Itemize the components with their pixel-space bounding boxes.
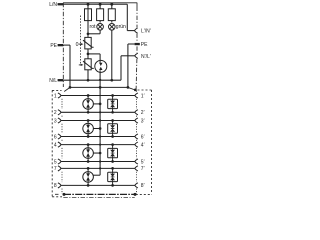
svg-text:1: 1 xyxy=(54,93,57,99)
junction lamp-N/L xyxy=(110,79,113,82)
wire PE bond right diagonal xyxy=(128,87,135,90)
junction spine crossing xyxy=(99,119,101,121)
terminal N/L left xyxy=(58,79,63,81)
junction screen bond bottom right xyxy=(134,193,137,196)
wire PE rail xyxy=(70,86,128,88)
border bottom dash-dot xyxy=(63,197,134,199)
suppressor diode box pair 3-6 xyxy=(108,121,118,137)
wire line 8 xyxy=(61,184,135,186)
cable box left bottom xyxy=(52,196,62,198)
svg-text:2′: 2′ xyxy=(141,110,145,116)
wire line 3 xyxy=(61,120,135,122)
junction diode bottom line 5 xyxy=(111,160,114,163)
wire N/L bus xyxy=(63,79,121,81)
svg-text:8: 8 xyxy=(54,183,57,189)
terminal 2 left xyxy=(58,110,61,115)
terminal L/N xyxy=(58,3,63,5)
junction tap-spine pair 1-2 xyxy=(99,103,102,106)
wire PE spine xyxy=(99,87,101,175)
junction PE rail spine xyxy=(99,86,102,89)
wire GDT tap pair 7-8 xyxy=(93,174,100,176)
varistor RV2 xyxy=(83,59,94,70)
wire RV1 to node B xyxy=(87,49,89,54)
svg-text:5′: 5′ xyxy=(141,159,145,165)
svg-text:N/L: N/L xyxy=(49,78,57,84)
junction GDT-N/L crossing xyxy=(99,79,101,81)
border left dash-dot xyxy=(62,3,64,87)
svg-text:6: 6 xyxy=(54,134,57,140)
cable dotted link left xyxy=(61,140,63,142)
cable dotted link right xyxy=(136,172,138,182)
wire PE down xyxy=(69,45,71,87)
junction GDT bottom line 5 xyxy=(87,160,90,163)
border right dash-dot mid1 xyxy=(136,34,138,42)
svg-text:3: 3 xyxy=(54,118,57,124)
suppressor diode box pair 1-2 xyxy=(108,96,118,113)
terminal PE left xyxy=(58,44,63,46)
wire down to GDT F2 xyxy=(99,54,101,61)
junction PE rail right xyxy=(127,86,130,89)
junction spine crossing xyxy=(99,135,101,137)
terminal 2' right xyxy=(135,110,138,115)
wire line 7 xyxy=(61,167,135,169)
junction diode bottom line 8 xyxy=(111,184,114,187)
svg-text:N'/L': N'/L' xyxy=(141,54,151,60)
wire to L-N outlet xyxy=(127,30,134,32)
wire fuse to node A xyxy=(87,21,89,34)
wire GDT tap pair 4-5 xyxy=(93,152,100,154)
varistor RV1 xyxy=(83,37,94,49)
resistor R3 xyxy=(108,9,115,21)
junction GDT bottom line 8 xyxy=(87,184,90,187)
terminal 3' right xyxy=(135,118,138,123)
cable dotted link left xyxy=(61,99,63,109)
terminal 6' right xyxy=(135,134,138,139)
cable dotted link right xyxy=(136,140,138,142)
junction tap-spine pair 3-6 xyxy=(99,127,102,130)
terminal 1' right xyxy=(135,93,138,98)
junction diode top line 3 xyxy=(111,119,114,122)
resistor R2 xyxy=(97,9,104,21)
svg-text:2: 2 xyxy=(54,110,57,116)
junction diode top line 4 xyxy=(111,143,114,146)
terminal 5' right xyxy=(135,159,138,164)
cable box left vertical xyxy=(51,90,53,196)
junction screen bond bottom left xyxy=(63,193,66,196)
wire PE left xyxy=(63,44,70,46)
terminal 7 left xyxy=(58,166,61,171)
svg-text:5: 5 xyxy=(54,159,57,165)
terminal 4' right xyxy=(135,142,138,147)
wire line 2 xyxy=(61,111,135,113)
lamp H2 gruen xyxy=(109,24,116,31)
cable dotted link right xyxy=(136,124,138,133)
suppressor diode box pair 7-8 xyxy=(108,168,118,185)
junction spine crossing xyxy=(99,160,101,162)
gas discharge tube pair 3-6 xyxy=(83,121,94,137)
wire bus to resistor R2 xyxy=(99,4,101,9)
wire line 6 xyxy=(61,136,135,138)
cable dotted link left xyxy=(61,116,63,118)
terminal 5 left xyxy=(58,159,61,164)
svg-text:6′: 6′ xyxy=(141,134,145,140)
lamp H1 rot xyxy=(97,24,104,31)
terminal L-N outlet xyxy=(135,28,138,33)
junction bus-colA xyxy=(87,3,90,6)
disconnect arrow 2 xyxy=(79,64,84,66)
junction tap-spine pair 4-5 xyxy=(99,152,102,155)
svg-text:4′: 4′ xyxy=(141,142,145,148)
wire GDT tap pair 3-6 xyxy=(93,128,100,130)
cable dotted link right xyxy=(136,148,138,158)
junction GDT top line 1 xyxy=(87,94,90,97)
cable dotted link right xyxy=(136,99,138,109)
wire node A to varistor RV1 xyxy=(87,34,89,38)
cable dotted link left xyxy=(61,148,63,158)
cable box left top xyxy=(52,89,61,91)
junction spine crossing xyxy=(99,144,101,146)
terminal PE right xyxy=(135,43,140,45)
wire lamp rot to node A xyxy=(88,33,100,35)
border top dash-dot xyxy=(63,2,137,4)
junction diode top line 7 xyxy=(111,167,114,170)
svg-text:3′: 3′ xyxy=(141,118,145,124)
screen bond dashes right xyxy=(136,193,152,195)
cable dotted link right xyxy=(136,116,138,118)
svg-text:7: 7 xyxy=(54,166,57,172)
junction spine crossing xyxy=(99,167,101,169)
terminal 6 left xyxy=(58,134,61,139)
wire L/N bus xyxy=(58,3,128,5)
wire node B to varistor RV2 xyxy=(87,54,89,59)
node A junction xyxy=(87,32,90,35)
wire PE rail up right xyxy=(127,44,129,87)
junction GDT top line 3 xyxy=(87,119,90,122)
disconnect linkage dashed xyxy=(80,16,82,65)
junction screen bond right xyxy=(134,89,137,92)
wire line 5 xyxy=(61,161,135,163)
svg-text:8′: 8′ xyxy=(141,183,145,189)
disconnect arrow 1 xyxy=(79,43,84,45)
junction diode top line 1 xyxy=(111,94,114,97)
wire to PE outlet xyxy=(128,43,135,45)
wire N/L up to outlet xyxy=(120,56,122,80)
terminal 4 left xyxy=(58,142,61,147)
wire bus to fuse xyxy=(87,4,89,9)
cable dotted link right top xyxy=(136,91,138,93)
border right dash-dot lower xyxy=(135,59,138,89)
junction PE rail left xyxy=(69,86,72,89)
border right dash-dot upper xyxy=(136,3,138,28)
svg-text:4: 4 xyxy=(54,142,57,148)
svg-text:0: 0 xyxy=(76,42,79,48)
junction GDT top line 4 xyxy=(87,143,90,146)
junction bus-colC xyxy=(110,3,113,6)
gas discharge tube F2 xyxy=(95,60,107,72)
wire GDT F2 to PE rail xyxy=(99,72,101,87)
cable box right top xyxy=(138,89,152,91)
wire R2 to lamp rot xyxy=(99,21,101,23)
wire bus to resistor R3 xyxy=(111,4,113,9)
wire PE bond left diagonal xyxy=(64,87,70,91)
terminal 7' right xyxy=(135,166,138,171)
svg-text:PE: PE xyxy=(141,42,148,48)
junction RV2-N/L xyxy=(87,79,90,82)
terminal N-L outlet xyxy=(135,53,138,58)
gas discharge tube pair 4-5 xyxy=(83,145,94,162)
svg-text:1′: 1′ xyxy=(141,93,145,99)
terminal 8 left xyxy=(58,183,61,188)
svg-text:grün: grün xyxy=(116,24,126,30)
gas discharge tube pair 1-2 xyxy=(83,96,94,113)
cable dotted link right bottom xyxy=(136,189,138,194)
wire GDT tap pair 1-2 xyxy=(93,103,100,105)
junction spine crossing xyxy=(99,111,101,113)
junction GDT top line 7 xyxy=(87,167,90,170)
junction bus-colB xyxy=(99,3,102,6)
wire RV2 to N/L xyxy=(87,70,89,80)
wire L/N to outlet down xyxy=(126,4,128,30)
junction diode bottom line 6 xyxy=(111,135,114,138)
suppressor diode box pair 4-5 xyxy=(108,145,118,162)
svg-text:PE: PE xyxy=(50,43,57,49)
border right dash-dot mid2 xyxy=(136,46,138,53)
svg-text:L'/N': L'/N' xyxy=(141,29,151,35)
screen bond dash left xyxy=(55,193,59,195)
node B junction xyxy=(87,53,90,56)
cable dotted link left xyxy=(61,124,63,133)
screen bond bottom rail xyxy=(64,193,135,195)
cable dotted link left xyxy=(61,172,63,182)
terminal 8' right xyxy=(135,183,138,188)
junction GDT bottom line 6 xyxy=(87,135,90,138)
junction GDT bottom line 2 xyxy=(87,111,90,114)
wire node B to GDT F2 xyxy=(88,53,100,55)
wire to N-L outlet xyxy=(121,55,135,57)
wire line 4 xyxy=(61,144,135,146)
cable box right vertical xyxy=(151,90,153,194)
terminal 1 left xyxy=(58,93,61,98)
svg-text:7′: 7′ xyxy=(141,166,145,172)
wire lamp gruen to N/L xyxy=(111,30,113,80)
wire lamp rot down xyxy=(99,30,101,34)
cable dotted link left bottom xyxy=(61,189,63,194)
terminal 3 left xyxy=(58,118,61,123)
wire R3 to lamp gruen xyxy=(111,21,113,23)
svg-text:rot: rot xyxy=(90,24,96,30)
svg-text:L/N: L/N xyxy=(49,2,57,8)
wire line 1 xyxy=(61,95,135,97)
gas discharge tube pair 7-8 xyxy=(83,168,94,185)
junction diode bottom line 2 xyxy=(111,111,114,114)
fuse F1 xyxy=(85,9,92,21)
